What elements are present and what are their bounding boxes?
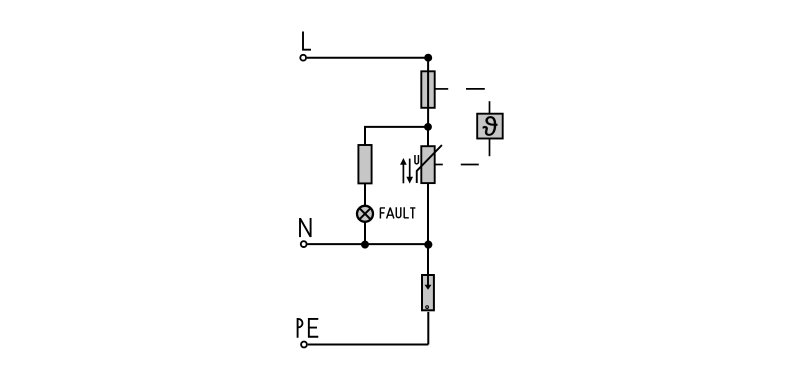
gas discharge tube / isolating spark gap — [422, 274, 434, 311]
terminal PE — [301, 342, 307, 348]
wire lamp to N — [364, 222, 366, 245]
wire resistor to lamp — [364, 183, 366, 206]
wire N — [307, 243, 428, 245]
wire node to varistor — [427, 127, 429, 147]
indicator lamp (FAULT) — [357, 206, 373, 222]
wire N to spark gap — [427, 244, 429, 274]
varistor RV1 — [417, 145, 442, 183]
terminal N — [301, 241, 307, 247]
resistor R1 — [358, 145, 371, 183]
wire L through fuse to node — [427, 58, 429, 127]
arrow down (voltage) — [406, 159, 413, 184]
wire L — [307, 57, 428, 59]
junction node — [424, 123, 432, 131]
wire spark gap to PE — [427, 312, 429, 345]
wire PE — [308, 344, 429, 346]
wire branch to resistor — [365, 127, 428, 146]
thermal linkage dash (fuse side) — [435, 89, 489, 114]
arrow up (voltage) — [400, 158, 407, 183]
wire varistor to N — [427, 183, 429, 244]
junction L — [424, 54, 432, 62]
label N — [300, 218, 311, 237]
label PE — [298, 319, 319, 338]
junction N main — [424, 241, 432, 249]
terminal L — [300, 55, 306, 61]
thermal linkage dash (varistor side) — [435, 139, 489, 165]
fuse F1 body — [421, 71, 434, 108]
thermal disconnect device — [477, 114, 503, 139]
junction lamp/N — [361, 241, 369, 249]
label FAULT — [380, 207, 415, 218]
label L — [303, 32, 311, 50]
label U — [415, 155, 419, 164]
